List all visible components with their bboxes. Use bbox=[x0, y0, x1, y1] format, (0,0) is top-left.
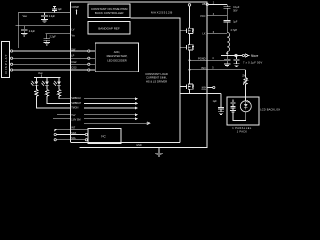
wire VCC rail bbox=[16, 25, 71, 27]
svg-text:1µF: 1µF bbox=[58, 8, 63, 11]
transistor Q3 dimming FET bbox=[180, 82, 194, 94]
svg-text:1µF: 1µF bbox=[233, 21, 238, 24]
svg-text:SDA: SDA bbox=[71, 132, 76, 135]
wire LED return bbox=[233, 112, 246, 121]
wire TLV internal bbox=[84, 114, 137, 116]
svg-text:REGISTER MAP,: REGISTER MAP, bbox=[107, 54, 128, 58]
capacitor C1 2.2uF bbox=[41, 13, 56, 23]
wire Q2 source to PGND row bbox=[189, 52, 191, 72]
transistor Q2 low-side FET bbox=[180, 43, 194, 52]
LED D4 lamp bbox=[240, 100, 251, 112]
svg-text:LV: LV bbox=[72, 28, 75, 31]
node gate drive text bbox=[145, 72, 168, 84]
wire gate return rail bbox=[71, 142, 181, 144]
transistor Q1 high-side FET bbox=[180, 26, 194, 35]
svg-text:CG3: CG3 bbox=[71, 67, 77, 70]
node VBAT input rail bbox=[18, 13, 70, 48]
svg-text:PGND: PGND bbox=[198, 57, 206, 61]
svg-text:COMP: COMP bbox=[72, 6, 80, 9]
svg-text:CG2: CG2 bbox=[71, 61, 77, 64]
wire data line 1 bbox=[11, 50, 88, 52]
svg-text:2.2µF: 2.2µF bbox=[29, 30, 36, 33]
svg-text:7 x 0.1µF 50V: 7 x 0.1µF 50V bbox=[243, 60, 262, 64]
wire Q1-Q2 bbox=[189, 35, 191, 43]
svg-text:INT: INT bbox=[71, 127, 75, 130]
svg-text:ADC,: ADC, bbox=[114, 50, 121, 54]
svg-text:VCC: VCC bbox=[200, 14, 206, 18]
capacitor C5 bootstrap bbox=[224, 4, 240, 15]
capacitor C8 output bbox=[233, 56, 262, 67]
pin VCC bbox=[200, 13, 227, 18]
node TG row bbox=[180, 93, 221, 95]
block U1D I2C interface bbox=[85, 129, 121, 144]
svg-text:2.2µF: 2.2µF bbox=[49, 15, 56, 18]
wire bus enable internal bbox=[84, 122, 150, 125]
svg-text:LP: LP bbox=[71, 54, 74, 57]
svg-text:TMON: TMON bbox=[71, 107, 78, 110]
svg-text:TLV: TLV bbox=[71, 114, 76, 117]
svg-text:HB: HB bbox=[202, 2, 206, 6]
svg-text:MAX25512B: MAX25512B bbox=[151, 10, 173, 14]
wire BSTN bbox=[57, 114, 71, 116]
LED string symbol bbox=[230, 100, 236, 113]
node PGND row bbox=[189, 57, 225, 62]
wire SMBCLK internal bbox=[84, 98, 137, 100]
svg-text:I²C: I²C bbox=[101, 135, 106, 139]
capacitor C3 2.2uF bbox=[21, 26, 36, 36]
capacitor C6 VCC bbox=[224, 16, 238, 33]
block U1B bandgap bbox=[88, 22, 130, 35]
wire data line 4 bbox=[11, 69, 88, 71]
svg-text:50V: 50V bbox=[233, 10, 238, 13]
svg-text:BANDGAP REF: BANDGAP REF bbox=[98, 26, 120, 30]
svg-text:HS & LS DRIVER: HS & LS DRIVER bbox=[146, 80, 167, 84]
svg-text:SCL: SCL bbox=[71, 137, 76, 140]
capacitor C2 1uF bbox=[52, 7, 62, 13]
wire data line 2 bbox=[11, 57, 88, 59]
wire data line 3 bbox=[11, 63, 88, 65]
pin COMP bbox=[72, 6, 80, 15]
svg-text:LCD BACKLIGHT: LCD BACKLIGHT bbox=[260, 107, 280, 111]
wire SDA bbox=[54, 133, 85, 135]
value string note bbox=[232, 127, 252, 134]
wire LV rail bbox=[46, 33, 71, 35]
capacitor C9 TG bbox=[213, 94, 225, 115]
wire supply sense bbox=[53, 118, 71, 120]
pin LX bbox=[202, 31, 227, 35]
svg-text:2.2µF: 2.2µF bbox=[50, 36, 57, 39]
diode D2 TVS bbox=[41, 78, 49, 90]
resistor R1 bbox=[35, 89, 71, 108]
svg-text:CONSTANT LOAD: CONSTANT LOAD bbox=[145, 72, 168, 76]
node VOUT bbox=[221, 52, 259, 58]
svg-text:1 PARALLEL: 1 PARALLEL bbox=[232, 127, 252, 130]
wire switch node chain bbox=[188, 4, 190, 26]
svg-text:CURRENT SINK,: CURRENT SINK, bbox=[146, 76, 167, 80]
capacitor C4 2.2uF bbox=[44, 34, 57, 45]
resistor R2 bbox=[45, 89, 70, 103]
wire SMBDAT internal bbox=[84, 102, 137, 104]
svg-text:GND: GND bbox=[136, 144, 142, 147]
pin HB bbox=[202, 2, 227, 6]
svg-text:1.8V SM: 1.8V SM bbox=[71, 119, 80, 122]
svg-text:SMBCLK: SMBCLK bbox=[71, 97, 81, 100]
wire sup internal bbox=[84, 118, 137, 120]
svg-text:BUCK CONTROLLER: BUCK CONTROLLER bbox=[95, 11, 124, 15]
inductor L1 bbox=[227, 29, 237, 56]
node VBAT pull-up bus bbox=[34, 72, 61, 78]
resistor R3 bbox=[57, 89, 70, 98]
block LED module box bbox=[227, 97, 259, 125]
diode D1 TVS bbox=[31, 78, 39, 90]
wire SCL return rail bbox=[54, 139, 85, 141]
wire gate drive vertical bbox=[131, 18, 181, 143]
svg-text:1 PACK: 1 PACK bbox=[237, 131, 248, 134]
svg-text:DISPLAY: DISPLAY bbox=[4, 53, 8, 73]
op-amp U1 LED driver IC outline bbox=[71, 2, 208, 148]
diode D3 TVS bbox=[53, 78, 61, 90]
block U1A PWM controller bbox=[88, 4, 130, 18]
svg-text:SMBDAT: SMBDAT bbox=[71, 102, 81, 105]
svg-text:IPSN: IPSN bbox=[201, 89, 206, 91]
wire TMON internal bbox=[84, 107, 137, 109]
wire to Q3 bbox=[189, 71, 191, 82]
svg-text:1µF: 1µF bbox=[213, 100, 218, 103]
connector J1 display host bbox=[2, 42, 10, 78]
svg-text:ISN: ISN bbox=[201, 66, 205, 70]
pin FSW stub bbox=[201, 86, 215, 91]
node GND bbox=[136, 144, 163, 156]
node ISN row bbox=[189, 66, 246, 71]
capacitor C7 output bbox=[224, 56, 230, 67]
resistor R4 sense bbox=[242, 70, 247, 101]
wire INT bbox=[54, 129, 88, 131]
svg-text:SW: SW bbox=[71, 48, 76, 51]
svg-text:4.7µH: 4.7µH bbox=[231, 29, 238, 32]
svg-text:LED DECODER: LED DECODER bbox=[107, 59, 126, 63]
block U1C ADC decoder bbox=[88, 43, 139, 72]
svg-text:LX: LX bbox=[202, 32, 205, 36]
